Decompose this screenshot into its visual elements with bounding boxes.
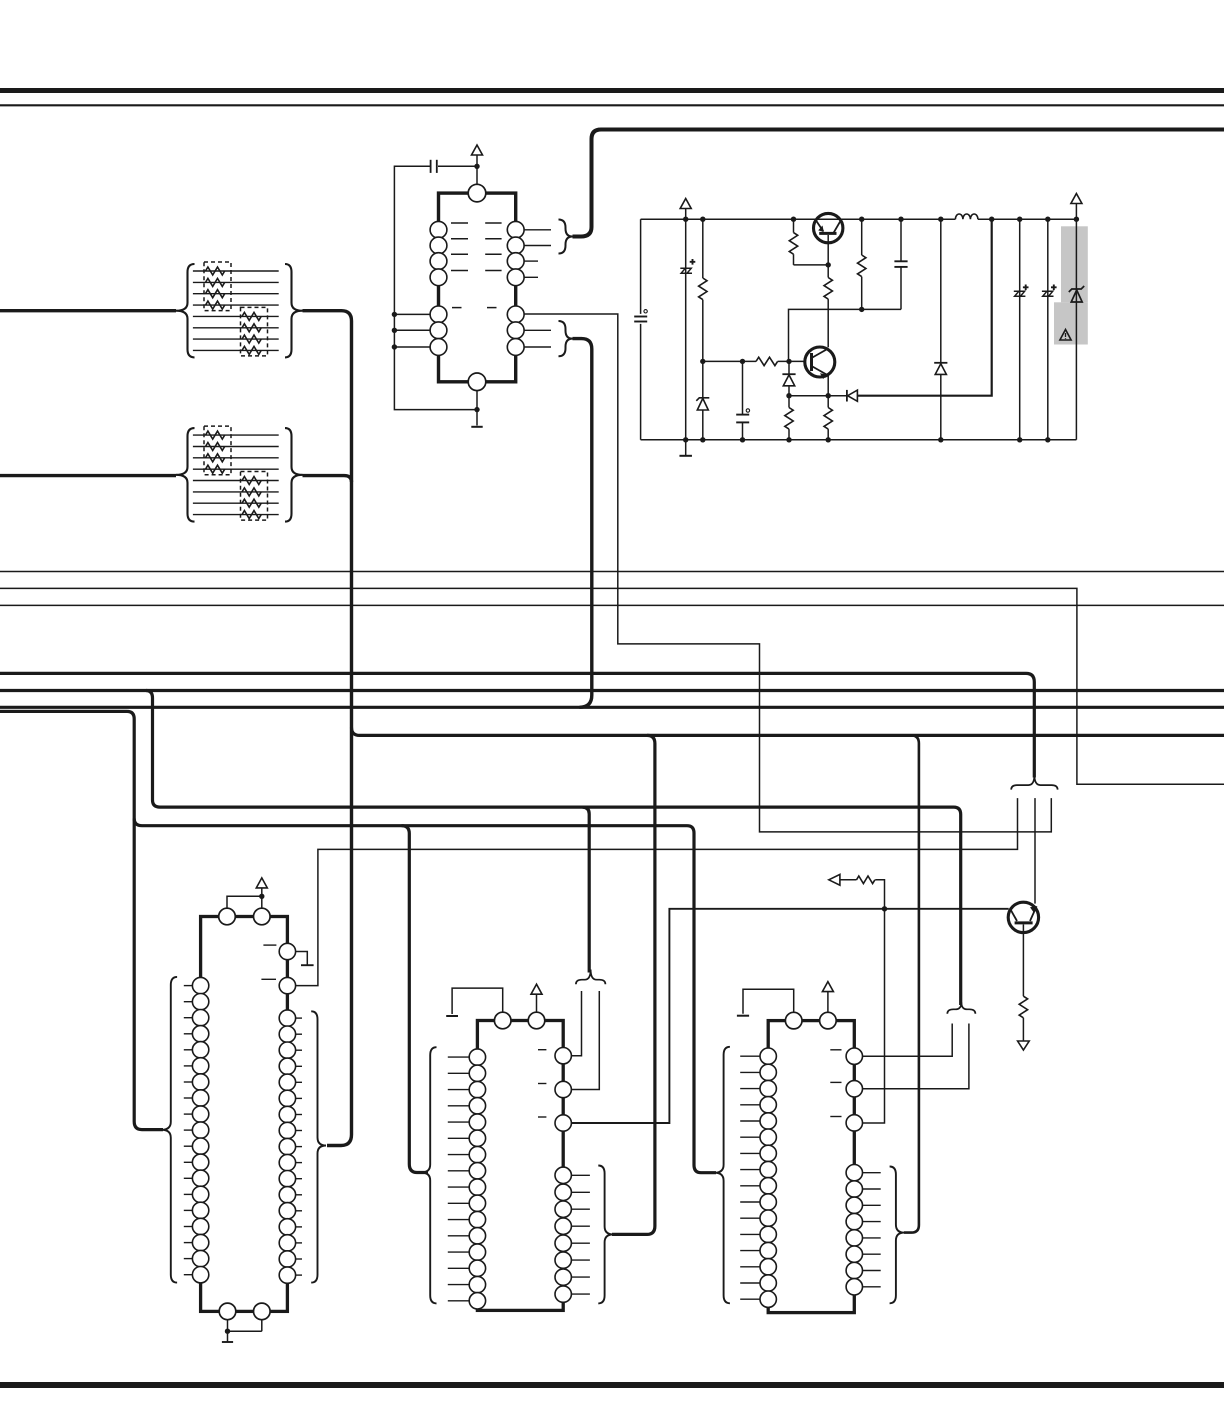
U3 pin B dash (261, 978, 276, 980)
wire RP2 output joining bus (303, 476, 352, 482)
power flag U4 (531, 984, 542, 994)
U2 upper right brace (559, 220, 573, 254)
U3 bottom pin 2 (253, 1303, 270, 1320)
wire bus thin 3 (0, 604, 1224, 606)
junction top rail (700, 217, 705, 222)
wire R8 corner (875, 880, 884, 884)
resistor R3 (785, 408, 793, 430)
wire bus thin 2 (0, 588, 1224, 784)
capacitor C1 (634, 316, 647, 318)
wire R7 top (861, 219, 863, 255)
wire U2 left pin y347 (394, 346, 430, 348)
U3 top pin 2 (253, 908, 270, 925)
polarized capacitor C6 (1042, 291, 1054, 296)
wire Q2 collector (827, 299, 829, 347)
transistor Q3 (1008, 902, 1038, 932)
U5 right pins upper (846, 1048, 862, 1064)
highlight box upper (1061, 226, 1088, 302)
wire D1 top (788, 361, 790, 374)
U5 top pin 2 (820, 1012, 837, 1029)
U4 internal pin dashes (538, 1049, 546, 1051)
power flag negative (1018, 1041, 1030, 1050)
inductor L1 (955, 214, 978, 219)
bus fan-out brace B2 (576, 970, 606, 985)
arrow input (829, 874, 840, 885)
wire U2 decoupling loop (394, 166, 477, 409)
resistor R8 (857, 876, 875, 884)
ground U5 strap (737, 1015, 749, 1017)
wire C3 top (742, 361, 744, 414)
bus fan-out brace B3 (947, 1002, 975, 1014)
U2 left pins (430, 221, 447, 238)
wire RP2 input (0, 474, 176, 477)
capacitor C2 (430, 160, 432, 173)
junction bottom rail (826, 437, 831, 442)
wire Q2 emitter (827, 375, 829, 396)
junction (826, 393, 831, 398)
resistor network RP1 dashed outline B (241, 307, 268, 356)
wire feedback row (789, 309, 902, 361)
junction U2 power (474, 164, 479, 169)
U3 left pins (192, 977, 208, 993)
wire bus thick 2 (0, 689, 1224, 692)
page border top thin (0, 104, 1224, 106)
U5 internal pin dashes (830, 1049, 841, 1051)
wire C3 bottom (742, 422, 744, 439)
power flag U3 (256, 878, 267, 888)
wire branch to U4 fan-out (583, 807, 590, 972)
wire R9 to arrow (1022, 1018, 1024, 1041)
wire bus thin 1 (0, 571, 1224, 573)
diode D1 (782, 373, 795, 375)
U2 lower right brace (559, 321, 573, 356)
wire R7 bottom (861, 277, 863, 310)
wire R5 top (827, 396, 829, 408)
wire C6 column (1047, 219, 1049, 440)
wire B3 to U5 pin R2 (863, 1024, 969, 1089)
wire U3 pin A (296, 952, 308, 966)
wire U2 ground lead (476, 391, 478, 426)
wire Q3 base net (564, 909, 1009, 1123)
resistor network RP1 resistors group B (242, 312, 261, 320)
resistor network RP2 dashed outline A (204, 426, 231, 475)
junction top rail (898, 217, 903, 222)
junction bottom rail (938, 437, 943, 442)
wire R4 top (827, 265, 829, 278)
U5 left pins (760, 1048, 776, 1064)
junction top rail (1017, 217, 1022, 222)
wire U3 power (227, 888, 262, 908)
resistor network RP1 dashed outline A (204, 262, 231, 311)
junction (392, 344, 397, 349)
junction bottom rail (1017, 437, 1022, 442)
U4 left pins (469, 1049, 485, 1065)
U3 pin A (279, 943, 295, 959)
resistor R4 (824, 278, 832, 300)
wire emitter row (789, 395, 847, 397)
wire Vin column (685, 209, 687, 440)
wire R6 top (793, 219, 795, 232)
junction (392, 312, 397, 317)
U3 left pin stubs (184, 985, 193, 987)
wire R3 bottom (788, 429, 790, 440)
wire U2 left pin y314 (394, 313, 430, 315)
U2 bottom pin (468, 373, 486, 391)
U4 left pin stubs (448, 1056, 469, 1058)
wire B2 to U4 pin R2 (571, 991, 599, 1090)
U4 left brace (421, 1047, 436, 1303)
U5 left pin stubs (740, 1055, 760, 1057)
U3 top pin 1 (219, 908, 236, 925)
ground U2 (471, 426, 482, 428)
U2 right pin stubs (524, 229, 551, 231)
U5 left brace (715, 1047, 730, 1304)
resistor R7 (858, 255, 866, 277)
junction top rail (938, 217, 943, 222)
wire D3 top (940, 219, 942, 363)
U4 right pin stubs (571, 1174, 590, 1176)
wire U3 bottom pins (228, 1320, 262, 1332)
warning mark (1060, 330, 1071, 341)
IC U3 body (201, 917, 288, 1312)
wire R1 top (702, 219, 704, 278)
junction (826, 262, 831, 267)
bus fan-out brace B1 (1011, 775, 1057, 790)
wire base net left (703, 360, 756, 362)
wire fan-out to U3 pin B (296, 798, 1018, 986)
power flag U5 (822, 982, 833, 992)
resistor R1 (699, 278, 707, 300)
wire U4 pin1 strap (452, 988, 503, 1014)
wire rail left edge (640, 219, 642, 440)
U3 bottom pin 1 (219, 1303, 236, 1320)
junction (392, 328, 397, 333)
U3 right brace (311, 1011, 326, 1282)
wire Q3 emitter (1022, 925, 1024, 997)
polarized capacitor ZC1 (680, 268, 692, 273)
wire R6 bottom (793, 254, 795, 265)
U4 right brace (598, 1166, 613, 1304)
diode D3 (934, 362, 947, 364)
junction top rail (1045, 217, 1050, 222)
power flag output (1071, 194, 1082, 204)
wire C4 bottom (900, 267, 902, 310)
resistor network RP2 right brace (285, 428, 303, 521)
zener diode ZD2 (1069, 286, 1084, 302)
U3 pin A dash (263, 944, 276, 946)
ground U3 pin A (301, 964, 314, 966)
wire U3 ground lead (227, 1331, 229, 1342)
wire arrow-resistor to U5 pin (863, 884, 885, 1123)
junction U3 ground (225, 1329, 230, 1334)
wire C4 top (900, 219, 902, 261)
highlight box lower (1054, 302, 1088, 344)
wire branch to U4 left brace (402, 826, 429, 1173)
resistor network RP1 right brace (285, 264, 303, 357)
wire B2 to U4 pin R1 (571, 991, 581, 1056)
junction Q3 base (882, 906, 887, 911)
transistor Q1 (814, 213, 843, 242)
wire R1 bottom (702, 300, 704, 398)
resistor network RP1 resistors group A (206, 267, 225, 275)
wire R3 top (788, 396, 790, 408)
wire U2 lower brace to bus3 (573, 339, 592, 708)
U5 top pin 1 (785, 1012, 802, 1029)
wire ZD1 bottom (702, 410, 704, 440)
wire bus5 branch to U5 right brace (904, 735, 919, 1232)
junction top rail (791, 217, 796, 222)
wire bus thick 5 (352, 728, 1224, 736)
wire output column (1075, 204, 1077, 440)
wire U2 upper brace to top right (573, 130, 1224, 237)
junction bottom rail (683, 437, 688, 442)
zener diode ZD1 (696, 398, 709, 410)
junction U2 ground (474, 407, 479, 412)
junction (786, 359, 791, 364)
wire base net right (778, 360, 805, 362)
U4 right pins upper (555, 1048, 571, 1064)
power flag U2 (472, 145, 483, 155)
diode D2 (846, 390, 848, 402)
U3 right pins (279, 1010, 295, 1026)
junction top rail (859, 217, 864, 222)
ground U3 (222, 1341, 233, 1343)
capacitor C4 (894, 260, 907, 262)
wire branch to U5 left brace (134, 819, 716, 1173)
resistor network RP2 dashed outline B (241, 472, 268, 521)
transistor Q2 (805, 347, 835, 377)
IC U4 body (477, 1021, 563, 1311)
U4 top pin 2 (528, 1012, 545, 1029)
wire D2 feedback to rail (857, 219, 991, 396)
U3 left brace (162, 977, 177, 1283)
U2 right pins (507, 221, 524, 238)
ground rail (679, 455, 692, 457)
junction bottom rail (740, 437, 745, 442)
resistor R6 (789, 233, 797, 255)
junction top rail (683, 217, 688, 222)
wire top rail (641, 218, 1077, 220)
U2 top pin (468, 184, 486, 202)
wire C5 column (1019, 219, 1021, 440)
junction top rail (1074, 217, 1079, 222)
wire B3 to U5 pin R1 (863, 1024, 953, 1057)
junction (700, 359, 705, 364)
resistor R9 (1019, 996, 1027, 1018)
wire arrow to R8 (840, 879, 857, 881)
junction bottom rail (700, 437, 705, 442)
wire U2 left pin y330 (394, 329, 430, 331)
wire bus thick 4 to U3 left brace (0, 711, 163, 1129)
wire D1 bottom (788, 386, 790, 396)
wire Q1 base lead (827, 235, 829, 265)
wire R6 to Q1 (794, 264, 829, 266)
resistor network RP1 left brace (176, 264, 195, 357)
junction (786, 393, 791, 398)
wire U5 power (827, 992, 829, 1013)
wire RP1 output to U3 right brace (303, 311, 352, 1146)
resistor network RP1 lines (193, 270, 279, 272)
IC U2 body (439, 193, 516, 382)
junction U3 power (259, 894, 264, 899)
power flag rail (680, 199, 691, 209)
wire bus2 branch to IC braces (146, 691, 961, 1006)
wire R5 bottom (827, 429, 829, 440)
resistor network RP2 left brace (176, 428, 195, 521)
ground U4 strap (446, 1015, 458, 1017)
capacitor C3 (736, 414, 749, 416)
resistor R5 (824, 408, 832, 430)
wire bottom rail (641, 439, 1077, 441)
wire to ground (685, 440, 687, 456)
U4 right pins lower (555, 1167, 571, 1183)
resistor network RP2 lines (193, 434, 279, 436)
wire Q3 collector (1034, 798, 1036, 904)
resistor network RP2 resistors group B (242, 477, 261, 485)
wire D3 bottom (940, 374, 942, 439)
U4 top pin 1 (494, 1012, 511, 1029)
junction (740, 359, 745, 364)
junction top rail (989, 217, 994, 222)
wire U4 power (536, 994, 538, 1012)
wire bus thick 3 (0, 706, 1224, 709)
U5 right pin stubs (863, 1172, 881, 1174)
resistor network RP2 resistors group A (206, 431, 225, 439)
IC U5 body (768, 1021, 854, 1313)
junction bottom rail (1045, 437, 1050, 442)
junction (859, 307, 864, 312)
wire bus5 branch to U4 right brace (612, 735, 655, 1234)
U3 pin B (279, 977, 295, 993)
wire bus thick 1 to fan-out (0, 673, 1034, 777)
U5 right pins lower (846, 1165, 862, 1181)
page border bottom (0, 1382, 1224, 1388)
polarized capacitor C5 (1014, 291, 1026, 296)
U3 right pin stubs (296, 1017, 302, 1019)
U2 internal pin dashes (451, 222, 468, 224)
wire RP1 input (0, 309, 176, 312)
U5 right brace (890, 1167, 905, 1304)
wire U5 pin1 strap (743, 989, 794, 1013)
junction bottom rail (786, 437, 791, 442)
page border top thick (0, 88, 1224, 93)
resistor R2 (756, 357, 778, 365)
wire U2 pin5 net (524, 314, 1052, 832)
wire U2 power (476, 155, 478, 185)
